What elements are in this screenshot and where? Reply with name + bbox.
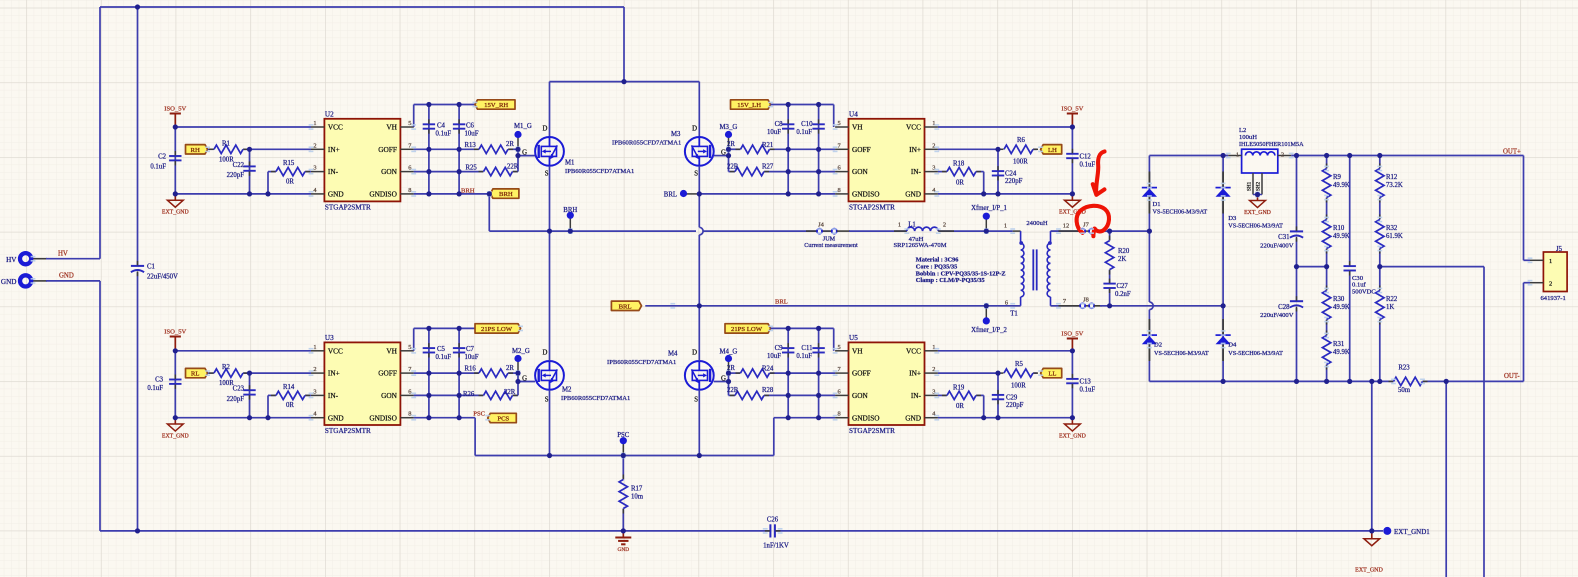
svg-text:OUT+: OUT+ bbox=[1503, 148, 1521, 155]
svg-text:VH: VH bbox=[386, 123, 397, 132]
svg-text:R14: R14 bbox=[283, 384, 295, 391]
svg-text:GND: GND bbox=[905, 190, 921, 199]
svg-text:C2: C2 bbox=[158, 154, 167, 161]
svg-text:STGAP2SMTR: STGAP2SMTR bbox=[849, 427, 895, 435]
svg-text:M1_G: M1_G bbox=[514, 123, 532, 130]
svg-text:5: 5 bbox=[837, 120, 840, 127]
svg-text:EXT_GND: EXT_GND bbox=[162, 210, 189, 216]
svg-text:49.9K: 49.9K bbox=[1333, 349, 1350, 356]
svg-text:BRH: BRH bbox=[499, 191, 513, 198]
svg-text:M3: M3 bbox=[671, 131, 681, 138]
svg-text:J5: J5 bbox=[1556, 246, 1563, 253]
svg-text:IPB60R055CFD7ATMA1: IPB60R055CFD7ATMA1 bbox=[565, 168, 634, 175]
svg-text:61.9K: 61.9K bbox=[1386, 233, 1403, 240]
svg-text:J7: J7 bbox=[1083, 222, 1089, 229]
svg-text:15V_RH: 15V_RH bbox=[484, 102, 508, 109]
svg-text:10uF: 10uF bbox=[767, 353, 781, 360]
svg-text:D1: D1 bbox=[1153, 201, 1161, 208]
svg-text:IN-: IN- bbox=[911, 391, 922, 400]
svg-text:D: D bbox=[542, 126, 547, 133]
svg-text:D: D bbox=[542, 350, 547, 357]
svg-text:IN-: IN- bbox=[328, 167, 339, 176]
svg-text:IPB60R055CFD7ATMA1: IPB60R055CFD7ATMA1 bbox=[561, 395, 630, 402]
svg-text:GOFF: GOFF bbox=[852, 145, 871, 154]
svg-text:1: 1 bbox=[1549, 258, 1552, 265]
svg-text:G: G bbox=[721, 375, 726, 382]
svg-text:10uF: 10uF bbox=[767, 129, 781, 136]
svg-text:GNDISO: GNDISO bbox=[852, 413, 880, 422]
svg-text:R30: R30 bbox=[1333, 296, 1345, 303]
svg-text:1: 1 bbox=[1004, 222, 1007, 229]
svg-text:8: 8 bbox=[837, 187, 840, 194]
svg-text:1: 1 bbox=[313, 344, 316, 351]
svg-text:R5: R5 bbox=[1015, 361, 1024, 368]
svg-text:C12: C12 bbox=[1080, 153, 1092, 160]
svg-text:VH: VH bbox=[852, 346, 863, 355]
svg-text:R1: R1 bbox=[222, 140, 230, 147]
svg-text:0.1uF: 0.1uF bbox=[1080, 386, 1096, 393]
svg-text:1: 1 bbox=[313, 120, 316, 127]
svg-text:0.1uF: 0.1uF bbox=[796, 129, 812, 136]
svg-text:GON: GON bbox=[381, 391, 398, 400]
svg-text:2: 2 bbox=[313, 142, 316, 149]
svg-text:2R: 2R bbox=[506, 141, 514, 148]
svg-text:VCC: VCC bbox=[328, 346, 343, 355]
svg-text:C5: C5 bbox=[437, 346, 446, 353]
svg-text:C7: C7 bbox=[466, 346, 475, 353]
svg-text:GON: GON bbox=[852, 167, 869, 176]
svg-text:0R: 0R bbox=[286, 178, 294, 185]
svg-text:C24: C24 bbox=[1005, 171, 1017, 178]
svg-text:C11: C11 bbox=[801, 345, 812, 352]
svg-text:R24: R24 bbox=[762, 366, 774, 373]
svg-text:GOFF: GOFF bbox=[852, 369, 871, 378]
svg-text:EXT_GND: EXT_GND bbox=[1355, 568, 1383, 574]
svg-text:IHLE5050FHER101M5A: IHLE5050FHER101M5A bbox=[1239, 141, 1304, 148]
svg-text:0R: 0R bbox=[286, 402, 294, 409]
svg-text:R12: R12 bbox=[1386, 174, 1398, 181]
svg-text:VS-5ECH06-M3/9AT: VS-5ECH06-M3/9AT bbox=[1228, 350, 1283, 357]
svg-text:IN+: IN+ bbox=[328, 145, 340, 154]
svg-text:220uF/400V: 220uF/400V bbox=[1260, 242, 1294, 249]
svg-text:0.1uF: 0.1uF bbox=[436, 354, 452, 361]
svg-text:BRL: BRL bbox=[775, 298, 788, 305]
svg-text:D4: D4 bbox=[1228, 341, 1237, 348]
svg-text:STGAP2SMTR: STGAP2SMTR bbox=[325, 204, 371, 212]
svg-text:GOFF: GOFF bbox=[378, 369, 397, 378]
svg-text:100R: 100R bbox=[1013, 159, 1028, 166]
svg-text:BRL: BRL bbox=[664, 191, 677, 198]
svg-text:22R: 22R bbox=[727, 387, 739, 394]
svg-text:1: 1 bbox=[898, 222, 901, 229]
svg-text:GND: GND bbox=[328, 413, 344, 422]
svg-text:6: 6 bbox=[408, 388, 411, 395]
svg-text:0.1uF: 0.1uF bbox=[147, 385, 163, 392]
svg-text:8: 8 bbox=[837, 411, 840, 418]
svg-text:2400uH: 2400uH bbox=[1026, 220, 1047, 227]
svg-text:1: 1 bbox=[1236, 151, 1239, 158]
svg-text:C26: C26 bbox=[767, 517, 779, 524]
svg-text:2: 2 bbox=[1549, 281, 1552, 288]
svg-text:R28: R28 bbox=[762, 387, 774, 394]
svg-text:R10: R10 bbox=[1333, 225, 1345, 232]
svg-text:R16: R16 bbox=[465, 366, 477, 373]
svg-text:1: 1 bbox=[932, 120, 935, 127]
svg-text:STGAP2SMTR: STGAP2SMTR bbox=[849, 204, 895, 212]
svg-text:D2: D2 bbox=[1154, 341, 1162, 348]
svg-text:Clamp : CLM/P-PQ35/35: Clamp : CLM/P-PQ35/35 bbox=[916, 277, 985, 284]
svg-text:C29: C29 bbox=[1006, 394, 1018, 401]
svg-text:21PS LOW: 21PS LOW bbox=[481, 326, 513, 333]
svg-text:C4: C4 bbox=[437, 122, 446, 129]
svg-text:R26: R26 bbox=[463, 391, 475, 398]
svg-text:8: 8 bbox=[408, 411, 411, 418]
svg-text:M3_G: M3_G bbox=[720, 124, 738, 131]
svg-text:GNDISO: GNDISO bbox=[852, 190, 880, 199]
svg-text:R18: R18 bbox=[953, 161, 965, 168]
svg-text:2: 2 bbox=[313, 366, 316, 373]
svg-text:220pF: 220pF bbox=[227, 172, 245, 179]
svg-text:R20: R20 bbox=[1118, 248, 1130, 255]
svg-text:C10: C10 bbox=[801, 121, 813, 128]
svg-text:8: 8 bbox=[408, 187, 411, 194]
svg-text:VS-5ECH06-M3/9AT: VS-5ECH06-M3/9AT bbox=[1154, 350, 1209, 357]
svg-text:J8: J8 bbox=[1083, 297, 1089, 304]
svg-text:D3: D3 bbox=[1228, 215, 1237, 222]
svg-text:C31: C31 bbox=[1278, 234, 1289, 241]
svg-text:73.2K: 73.2K bbox=[1386, 182, 1403, 189]
svg-text:0.1uF: 0.1uF bbox=[150, 164, 166, 171]
svg-text:C6: C6 bbox=[466, 122, 475, 129]
svg-text:2: 2 bbox=[932, 366, 935, 373]
svg-text:G: G bbox=[522, 149, 527, 156]
svg-text:SRP1265WA-470M: SRP1265WA-470M bbox=[893, 242, 946, 249]
svg-text:GND: GND bbox=[59, 273, 74, 280]
svg-text:6: 6 bbox=[837, 165, 840, 172]
svg-text:49.9K: 49.9K bbox=[1333, 304, 1350, 311]
svg-text:5: 5 bbox=[408, 120, 411, 127]
svg-text:HV: HV bbox=[6, 256, 17, 264]
svg-text:2: 2 bbox=[932, 142, 935, 149]
svg-text:VCC: VCC bbox=[906, 123, 921, 132]
svg-text:GND: GND bbox=[905, 413, 921, 422]
svg-text:5: 5 bbox=[408, 344, 411, 351]
svg-text:R13: R13 bbox=[465, 142, 477, 149]
svg-text:0.1uF: 0.1uF bbox=[436, 130, 452, 137]
svg-text:0.1uF: 0.1uF bbox=[796, 353, 812, 360]
svg-text:U2: U2 bbox=[325, 110, 334, 118]
svg-text:C3: C3 bbox=[155, 377, 164, 384]
svg-text:U3: U3 bbox=[325, 334, 334, 342]
svg-text:1K: 1K bbox=[1386, 304, 1394, 311]
svg-text:22R: 22R bbox=[507, 163, 519, 170]
svg-text:VH: VH bbox=[386, 346, 397, 355]
svg-text:5: 5 bbox=[837, 344, 840, 351]
svg-text:3: 3 bbox=[313, 165, 316, 172]
svg-text:U4: U4 bbox=[849, 110, 858, 118]
svg-text:0R: 0R bbox=[956, 179, 964, 186]
svg-text:BRL: BRL bbox=[619, 303, 632, 310]
svg-text:LH: LH bbox=[1048, 147, 1057, 154]
svg-text:R27: R27 bbox=[762, 163, 774, 170]
svg-text:100R: 100R bbox=[1011, 382, 1026, 389]
svg-text:S: S bbox=[545, 397, 549, 404]
svg-text:VS-5ECH06-M3/9AT: VS-5ECH06-M3/9AT bbox=[1228, 222, 1283, 229]
svg-text:220pF: 220pF bbox=[1005, 178, 1023, 185]
svg-text:0R: 0R bbox=[956, 403, 964, 410]
svg-text:2R: 2R bbox=[506, 365, 514, 372]
svg-text:ISO_5V: ISO_5V bbox=[1061, 105, 1083, 112]
svg-text:R2: R2 bbox=[222, 364, 231, 371]
svg-text:C9: C9 bbox=[775, 345, 784, 352]
svg-text:M1: M1 bbox=[565, 160, 574, 167]
svg-text:R22: R22 bbox=[1386, 296, 1398, 303]
svg-text:VH: VH bbox=[852, 123, 863, 132]
svg-text:2: 2 bbox=[1281, 151, 1284, 158]
svg-text:G: G bbox=[721, 149, 726, 156]
svg-text:GND: GND bbox=[1, 278, 17, 286]
svg-text:2K: 2K bbox=[1118, 256, 1126, 263]
svg-text:OUT-: OUT- bbox=[1504, 373, 1520, 380]
svg-text:GOFF: GOFF bbox=[378, 145, 397, 154]
svg-text:R21: R21 bbox=[762, 142, 773, 149]
svg-text:3: 3 bbox=[932, 165, 935, 172]
svg-text:C22: C22 bbox=[233, 162, 245, 169]
svg-text:IN-: IN- bbox=[328, 391, 339, 400]
svg-text:IN-: IN- bbox=[911, 167, 922, 176]
svg-text:6: 6 bbox=[408, 165, 411, 172]
svg-text:VS-5ECH06-M3/9AT: VS-5ECH06-M3/9AT bbox=[1153, 208, 1208, 215]
svg-text:EXT_GND: EXT_GND bbox=[1059, 433, 1086, 439]
svg-text:M2: M2 bbox=[562, 387, 572, 394]
svg-text:C1: C1 bbox=[147, 263, 155, 270]
svg-text:U5: U5 bbox=[849, 334, 858, 342]
svg-text:HV: HV bbox=[58, 251, 68, 258]
svg-text:R32: R32 bbox=[1386, 225, 1398, 232]
svg-text:C8: C8 bbox=[775, 121, 784, 128]
svg-text:PCS: PCS bbox=[497, 416, 509, 423]
svg-text:R17: R17 bbox=[631, 486, 643, 493]
svg-text:GND: GND bbox=[328, 190, 344, 199]
svg-text:3: 3 bbox=[313, 388, 316, 395]
svg-text:220uF/400V: 220uF/400V bbox=[1260, 312, 1294, 319]
svg-text:10uF: 10uF bbox=[465, 130, 479, 137]
svg-text:R9: R9 bbox=[1333, 174, 1342, 181]
svg-text:6: 6 bbox=[837, 388, 840, 395]
svg-text:IN+: IN+ bbox=[909, 369, 921, 378]
svg-text:EXT_GND1: EXT_GND1 bbox=[1394, 528, 1430, 536]
svg-text:R23: R23 bbox=[1398, 364, 1410, 371]
svg-text:3: 3 bbox=[932, 388, 935, 395]
svg-text:BRH: BRH bbox=[461, 187, 475, 194]
svg-text:ISO_5V: ISO_5V bbox=[164, 328, 186, 335]
svg-text:GND: GND bbox=[617, 547, 629, 553]
svg-text:C27: C27 bbox=[1117, 283, 1129, 290]
svg-text:M4: M4 bbox=[668, 350, 678, 357]
svg-text:GNDISO: GNDISO bbox=[369, 413, 397, 422]
svg-text:ISO_5V: ISO_5V bbox=[1061, 330, 1083, 337]
svg-text:J4: J4 bbox=[818, 222, 824, 229]
svg-text:49.9K: 49.9K bbox=[1333, 182, 1350, 189]
svg-text:R25: R25 bbox=[466, 164, 478, 171]
svg-text:10m: 10m bbox=[631, 494, 644, 501]
svg-text:S: S bbox=[694, 397, 698, 404]
svg-text:IN+: IN+ bbox=[909, 145, 921, 154]
svg-text:2: 2 bbox=[943, 222, 946, 229]
svg-text:1: 1 bbox=[932, 344, 935, 351]
svg-text:M2_G: M2_G bbox=[512, 348, 530, 355]
svg-text:Xfmer_I/P_1: Xfmer_I/P_1 bbox=[971, 205, 1007, 212]
svg-text:220pF: 220pF bbox=[1006, 402, 1024, 409]
svg-text:STGAP2SMTR: STGAP2SMTR bbox=[325, 427, 371, 435]
svg-text:S: S bbox=[694, 171, 698, 178]
svg-text:R15: R15 bbox=[283, 160, 295, 167]
svg-text:Xfmer_I/P_2: Xfmer_I/P_2 bbox=[971, 327, 1007, 334]
svg-text:GNDISO: GNDISO bbox=[369, 190, 397, 199]
svg-text:641937-1: 641937-1 bbox=[1541, 295, 1566, 302]
svg-text:M4_G: M4_G bbox=[720, 348, 738, 355]
svg-text:PSC: PSC bbox=[473, 410, 485, 417]
svg-text:SH1: SH1 bbox=[1247, 181, 1253, 191]
svg-text:21PS LOW: 21PS LOW bbox=[731, 326, 763, 333]
svg-text:C13: C13 bbox=[1080, 378, 1092, 385]
svg-text:22R: 22R bbox=[727, 163, 739, 170]
svg-text:S: S bbox=[545, 171, 549, 178]
svg-text:EXT_GND: EXT_GND bbox=[1244, 210, 1271, 216]
svg-text:VCC: VCC bbox=[328, 123, 343, 132]
svg-text:22uF/450V: 22uF/450V bbox=[147, 274, 178, 281]
svg-text:10uF: 10uF bbox=[465, 354, 479, 361]
svg-text:RL: RL bbox=[191, 371, 200, 378]
svg-text:D: D bbox=[692, 126, 697, 133]
svg-text:RH: RH bbox=[191, 147, 200, 154]
svg-text:12: 12 bbox=[1063, 222, 1069, 229]
svg-text:0.2nF: 0.2nF bbox=[1115, 291, 1131, 298]
svg-text:IPB60R055CFD7ATMA1: IPB60R055CFD7ATMA1 bbox=[607, 359, 676, 366]
svg-text:T1: T1 bbox=[1010, 310, 1018, 317]
svg-text:IPB60R055CFD7ATMA1: IPB60R055CFD7ATMA1 bbox=[612, 140, 681, 147]
svg-text:1nF/1KV: 1nF/1KV bbox=[763, 542, 789, 549]
svg-text:G: G bbox=[522, 375, 527, 382]
svg-text:500VDC: 500VDC bbox=[1352, 288, 1376, 295]
svg-text:EXT_GND: EXT_GND bbox=[162, 433, 189, 439]
svg-text:0.1uF: 0.1uF bbox=[1080, 161, 1096, 168]
svg-text:ISO_5V: ISO_5V bbox=[164, 105, 186, 112]
svg-text:R6: R6 bbox=[1017, 137, 1026, 144]
svg-text:SH2: SH2 bbox=[1256, 181, 1262, 191]
svg-text:C28: C28 bbox=[1278, 304, 1290, 311]
svg-text:C23: C23 bbox=[233, 386, 245, 393]
svg-text:R19: R19 bbox=[953, 384, 965, 391]
svg-text:VCC: VCC bbox=[906, 346, 921, 355]
svg-text:R31: R31 bbox=[1333, 341, 1344, 348]
svg-text:220pF: 220pF bbox=[227, 396, 245, 403]
svg-text:IN+: IN+ bbox=[328, 369, 340, 378]
svg-text:50m: 50m bbox=[1398, 387, 1411, 394]
svg-text:GON: GON bbox=[852, 391, 869, 400]
svg-text:Current measurement: Current measurement bbox=[804, 242, 858, 249]
svg-text:LL: LL bbox=[1048, 371, 1056, 378]
svg-text:D: D bbox=[692, 350, 697, 357]
svg-text:GON: GON bbox=[381, 167, 398, 176]
svg-text:15V_LH: 15V_LH bbox=[737, 102, 761, 109]
svg-text:49.9K: 49.9K bbox=[1333, 233, 1350, 240]
